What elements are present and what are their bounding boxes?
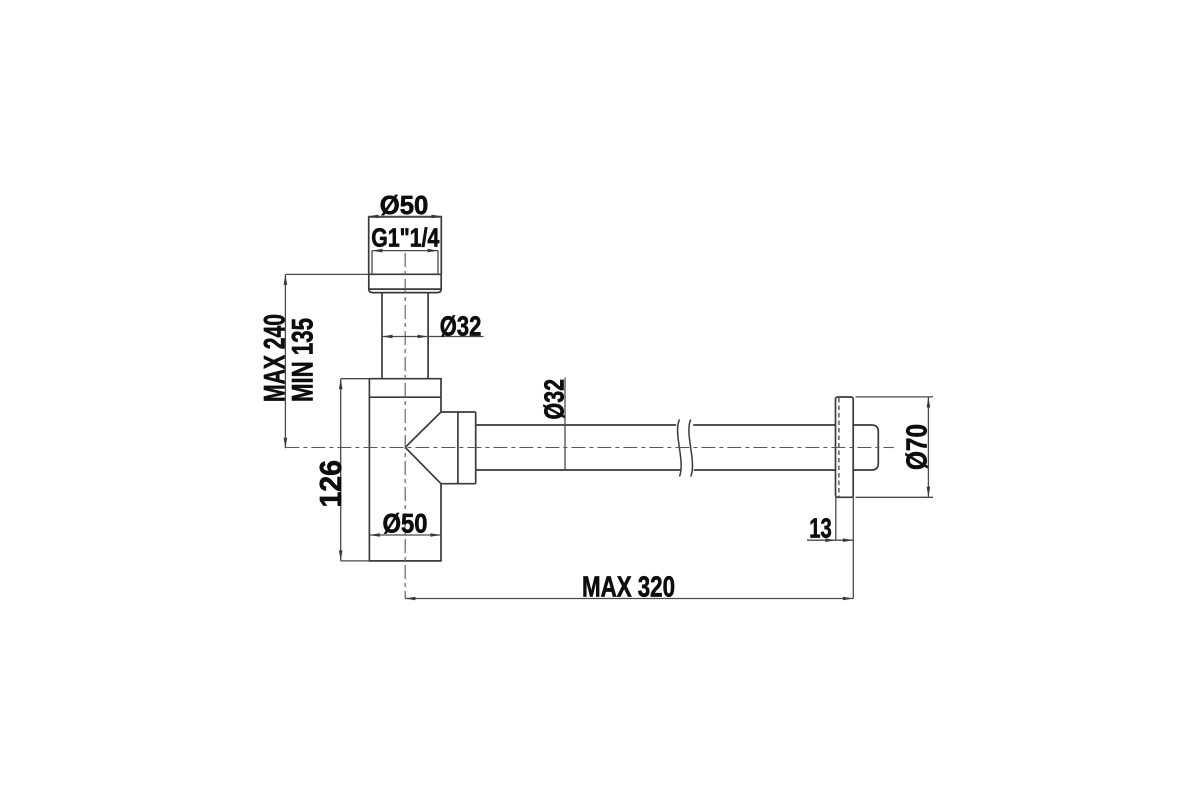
cone upper edge <box>405 412 441 447</box>
vertical centerline <box>404 253 406 599</box>
break curve right <box>689 420 693 477</box>
cone lower edge <box>405 447 441 483</box>
ext line D70 top <box>856 396 934 398</box>
arrows <box>284 215 931 601</box>
ext line 126 top <box>341 378 370 380</box>
outline group <box>369 217 879 561</box>
svg-text:MIN 135: MIN 135 <box>286 318 319 402</box>
svg-text:Ø70: Ø70 <box>901 424 933 470</box>
wall-side pipe rounded <box>853 425 878 470</box>
svg-text:13: 13 <box>809 513 832 544</box>
arrow D50 top left <box>368 215 379 219</box>
pipe bottom edge left segment <box>476 469 682 471</box>
arrow MAX240 up <box>284 274 288 285</box>
pipe bottom edge right segment <box>694 469 836 471</box>
arrow 126 up <box>339 379 343 390</box>
svg-text:Ø32: Ø32 <box>539 379 570 420</box>
wall flange <box>836 397 854 497</box>
nut body <box>369 274 441 292</box>
outlet nut right edge <box>475 412 477 484</box>
inlet threaded collar <box>369 217 442 274</box>
arrow G dim left <box>372 249 383 253</box>
dim line D70 <box>927 397 929 497</box>
arrow 13 right <box>843 538 854 542</box>
pipe top edge left segment <box>476 424 677 426</box>
ext line 13 left <box>835 497 837 540</box>
arrow D50 bottom left <box>369 533 380 537</box>
trap body <box>369 379 441 561</box>
ext line D70 bottom <box>856 496 934 498</box>
arrow D32 inlet right <box>418 335 429 339</box>
arrow D70 down <box>927 487 931 498</box>
ext lines G1 1/4 <box>372 251 438 275</box>
arrow 126 down <box>339 550 343 561</box>
dim line 126 <box>340 379 342 561</box>
break curve left <box>678 420 682 477</box>
vertical tube right <box>427 293 429 379</box>
arrow D32 inlet left <box>382 335 393 339</box>
dim line D32 inlet <box>382 336 484 338</box>
dim line G1 1/4 <box>372 250 438 252</box>
svg-text:Ø50: Ø50 <box>383 509 428 539</box>
arrow D70 up <box>927 397 931 408</box>
vertical tube left <box>381 293 383 379</box>
dim line MAX320 <box>405 598 854 600</box>
dim line D32 pipe vertical <box>564 378 566 471</box>
svg-text:Ø32: Ø32 <box>440 311 482 342</box>
ext line MAX240 top <box>285 273 368 275</box>
outlet nut top <box>441 411 476 413</box>
arrow MAX240 down <box>284 438 288 449</box>
arrow D50 bottom right <box>430 533 441 537</box>
dim line 13 <box>807 539 853 541</box>
arrow G dim right <box>428 249 439 253</box>
flange hidden dashed line <box>838 398 840 497</box>
dim line MAX240 MIN135 <box>284 275 286 449</box>
arrow 13 mid <box>825 538 836 542</box>
arrow D50 top right <box>432 215 443 219</box>
centerline group <box>285 253 893 599</box>
ext line 126 bottom <box>341 560 370 562</box>
ext line MAX320 right <box>852 497 854 598</box>
svg-text:126: 126 <box>314 460 348 508</box>
svg-text:G1"1/4: G1"1/4 <box>371 223 439 253</box>
body cap line <box>369 396 441 398</box>
outlet nut bottom <box>441 483 476 485</box>
outlet nut divider <box>457 412 459 484</box>
arrow MAX320 left <box>405 597 416 601</box>
dim line D50 bottom <box>369 534 441 536</box>
pipe top edge right segment <box>693 424 835 426</box>
nut bottom edge <box>369 288 441 290</box>
arrow MAX320 right <box>843 597 854 601</box>
svg-text:Ø50: Ø50 <box>380 192 429 220</box>
horizontal centerline <box>285 447 893 449</box>
svg-text:MAX 320: MAX 320 <box>582 571 675 603</box>
dim line D50 top <box>368 215 442 217</box>
dimension line group <box>285 216 933 598</box>
